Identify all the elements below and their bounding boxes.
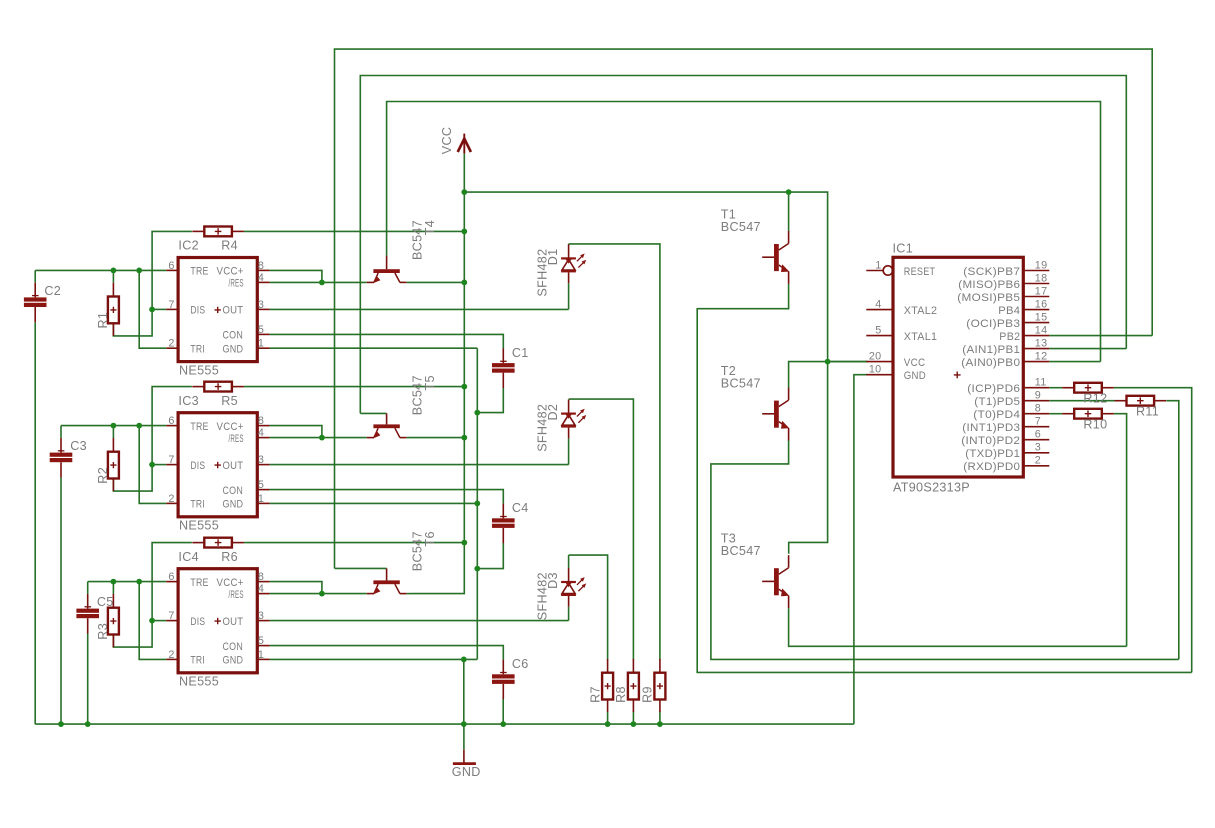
svg-text:7: 7 xyxy=(168,454,174,466)
svg-text:12: 12 xyxy=(1035,350,1048,362)
wire IC3 CON to capacitor xyxy=(270,490,504,504)
svg-text:13: 13 xyxy=(1035,337,1048,349)
junction at (827.6,361.6) xyxy=(825,359,831,365)
svg-text:XTAL1: XTAL1 xyxy=(904,331,938,343)
svg-text:(T0)PD4: (T0)PD4 xyxy=(973,409,1020,421)
svg-text:(MISO)PB6: (MISO)PB6 xyxy=(958,279,1020,291)
junction at (152.1,620.6) xyxy=(149,618,155,624)
transistor T1 BC547 xyxy=(762,231,789,284)
svg-text:R9: R9 xyxy=(641,686,655,703)
svg-text:7: 7 xyxy=(1035,416,1041,428)
svg-text:5: 5 xyxy=(258,635,264,647)
junction at (463.8,724.1) xyxy=(461,721,467,727)
wire R9 to ground bus xyxy=(659,711,661,724)
svg-text:(MOSI)PB5: (MOSI)PB5 xyxy=(957,292,1020,304)
wire D2 cathode to IC3 OUT xyxy=(568,438,570,464)
svg-text:3: 3 xyxy=(258,454,264,466)
svg-text:2: 2 xyxy=(1035,455,1041,467)
svg-text:TRI: TRI xyxy=(190,499,205,511)
junction at (321.9,437.6) xyxy=(319,435,325,441)
junction at (61,724.1) xyxy=(58,721,64,727)
svg-text:C1: C1 xyxy=(512,346,529,360)
wire IC3 OUT to LED cathode column xyxy=(270,464,569,466)
svg-text:3: 3 xyxy=(258,299,264,311)
op-amp IC4 NE555 timer xyxy=(166,550,269,689)
svg-text:(ICP)PD6: (ICP)PD6 xyxy=(967,383,1020,395)
op-amp IC3 NE555 timer xyxy=(166,394,269,533)
wire C4 bottom jog to ground vertical xyxy=(477,543,503,569)
microcontroller IC1 AT90S2313P xyxy=(866,241,1049,494)
wire R3 top branch xyxy=(112,582,114,594)
svg-text:VCC+: VCC+ xyxy=(217,421,244,433)
svg-text:IC1: IC1 xyxy=(893,241,914,255)
wire IC2 pin8 branch xyxy=(270,270,322,282)
wire C6 bottom to ground bus xyxy=(502,698,504,724)
wire IC3 pin8 branch xyxy=(270,426,322,438)
svg-text:(TXD)PD1: (TXD)PD1 xyxy=(965,448,1020,460)
resistor R4 xyxy=(192,227,244,237)
power symbol VCC xyxy=(440,127,471,155)
IC2 pin names xyxy=(190,266,243,356)
IC4 pin numbers xyxy=(168,571,264,661)
svg-text:8: 8 xyxy=(258,260,264,272)
wire DIS stub IC4 xyxy=(152,620,166,622)
svg-text:NE555: NE555 xyxy=(179,519,219,533)
wire C3 top lead xyxy=(60,426,62,438)
svg-text:T5: T5 xyxy=(423,375,437,390)
IC2 pin stubs xyxy=(166,270,269,348)
svg-text:17: 17 xyxy=(1035,285,1048,297)
svg-text:(AIN1)PB1: (AIN1)PB1 xyxy=(962,344,1020,356)
svg-text:4: 4 xyxy=(258,583,264,595)
IC1 origin cross xyxy=(954,372,961,379)
D3 labels xyxy=(536,572,561,620)
resistor R12 xyxy=(1062,383,1114,393)
junction at (113.4,425.6) xyxy=(111,423,117,429)
svg-text:T6: T6 xyxy=(423,531,437,546)
wire IC1 pin9 PD5 to R11 xyxy=(1049,400,1114,402)
svg-text:R3: R3 xyxy=(96,623,110,640)
svg-text:R5: R5 xyxy=(221,394,238,408)
T5 labels xyxy=(410,375,437,415)
svg-text:D1: D1 xyxy=(546,249,560,266)
svg-text:R10: R10 xyxy=(1083,418,1107,432)
svg-text:TRI: TRI xyxy=(190,655,205,667)
wire R7 to ground bus xyxy=(607,711,609,724)
resistor R1 xyxy=(108,283,119,336)
wire T4 collector to VCC trunk xyxy=(407,281,465,283)
junction at (659.9,724.1) xyxy=(657,721,663,727)
wire IC4 TRI branch xyxy=(139,582,166,660)
svg-text:NE555: NE555 xyxy=(179,675,219,689)
wire IC1 GND pin10 to ground bus xyxy=(854,375,868,724)
wire IC3 GND pin1 xyxy=(270,502,478,504)
svg-text:DIS: DIS xyxy=(190,616,205,628)
svg-text:GND: GND xyxy=(452,765,481,779)
D1 labels xyxy=(536,249,561,297)
wire C3 bottom to ground bus xyxy=(60,477,62,724)
svg-text:TRE: TRE xyxy=(190,266,208,278)
svg-text:BC547: BC547 xyxy=(410,375,424,415)
svg-text:(SCK)PB7: (SCK)PB7 xyxy=(963,266,1020,278)
wire IC1 pin11 PD6 to R12 xyxy=(1049,387,1062,389)
svg-text:R11: R11 xyxy=(1136,404,1159,418)
junction at (139.2,581.6) xyxy=(136,579,142,585)
svg-text:5: 5 xyxy=(875,325,881,337)
wire T1 collector stub xyxy=(788,192,790,231)
wire C5 top lead xyxy=(87,582,89,594)
IC3 origin cross xyxy=(215,462,221,468)
svg-text:2: 2 xyxy=(168,338,174,350)
svg-text:11: 11 xyxy=(1035,377,1047,389)
svg-text:BC547: BC547 xyxy=(721,377,761,391)
T1 labels xyxy=(721,208,761,234)
wire R1 top branch xyxy=(112,270,114,282)
svg-text:8: 8 xyxy=(258,415,264,427)
wire T3 collector branch xyxy=(789,362,828,554)
junction at (321.9,282.4) xyxy=(319,280,325,286)
resistor R5 xyxy=(192,382,244,392)
wire T5 collector to VCC trunk xyxy=(407,437,465,439)
resistor R10 xyxy=(1062,409,1114,419)
svg-text:VCC+: VCC+ xyxy=(217,266,244,278)
svg-text:C5: C5 xyxy=(97,595,114,609)
svg-text:2: 2 xyxy=(168,649,174,661)
wire ground bus xyxy=(35,723,854,725)
svg-text:10: 10 xyxy=(869,364,882,376)
svg-text:TRI: TRI xyxy=(190,344,205,356)
svg-text:OUT: OUT xyxy=(223,460,244,472)
IC1 left pin numbers xyxy=(869,260,882,376)
svg-text:R1: R1 xyxy=(96,312,110,329)
wire R10 to T3 emitter net xyxy=(1114,414,1127,647)
svg-text:4: 4 xyxy=(875,299,881,311)
resistor R2 xyxy=(108,438,119,491)
wire T2 emitter to R11 row xyxy=(711,441,1179,660)
svg-text:RESET: RESET xyxy=(904,266,936,278)
wire D3 anode to R7 xyxy=(569,555,608,660)
transistor T6 BC547 xyxy=(367,568,407,594)
IC4 origin cross xyxy=(215,618,221,624)
svg-text:8: 8 xyxy=(258,571,264,583)
wire T3 emitter to R10 row xyxy=(789,608,1127,646)
wire net PB1 top rail to T5 base xyxy=(360,76,1126,414)
IC4 pin names xyxy=(190,577,243,667)
svg-text:VCC+: VCC+ xyxy=(217,577,244,589)
wire R4 left to DIS junction xyxy=(152,231,192,309)
svg-text:R7: R7 xyxy=(588,686,602,703)
svg-text:T4: T4 xyxy=(423,220,437,235)
resistor R3 xyxy=(108,594,119,647)
junction at (152.1,309.4) xyxy=(149,307,155,313)
svg-text:6: 6 xyxy=(168,571,174,583)
wire IC2 GND pin1 xyxy=(270,347,478,349)
IC4 pin stubs xyxy=(166,582,269,660)
junction at (113.4,270.4) xyxy=(111,268,117,274)
wire IC2 pin4 to transistor emitter xyxy=(270,281,367,283)
svg-text:PB2: PB2 xyxy=(999,331,1020,343)
svg-text:GND: GND xyxy=(223,655,244,667)
svg-text:GND: GND xyxy=(223,499,244,511)
junction at (477.3,568.6) xyxy=(474,566,480,572)
junction at (788.6,192.1) xyxy=(786,189,792,195)
wire IC3 pin4 to transistor emitter xyxy=(270,437,367,439)
svg-text:R6: R6 xyxy=(221,550,238,564)
svg-text:AT90S2313P: AT90S2313P xyxy=(893,480,970,494)
transistor T3 BC547 xyxy=(762,555,789,608)
svg-text:BC547: BC547 xyxy=(721,220,761,234)
wire R3 bottom to DIS xyxy=(113,621,152,648)
infrared LED D3 SFH482 xyxy=(561,568,586,607)
wire D1 anode to R9 xyxy=(569,244,660,660)
resistor R11 xyxy=(1115,396,1167,406)
wire IC4 threshold net (TRE) from C5 xyxy=(88,581,167,583)
wire R8 to ground bus xyxy=(632,711,634,724)
svg-text:(T1)PD5: (T1)PD5 xyxy=(974,396,1020,408)
wire R4 right to VCC trunk xyxy=(244,230,464,232)
svg-text:5: 5 xyxy=(258,324,264,336)
svg-text:2: 2 xyxy=(168,493,174,505)
junction at (503.2,724.1) xyxy=(500,721,506,727)
svg-text:/RES: /RES xyxy=(229,278,244,290)
svg-text:20: 20 xyxy=(869,351,882,363)
junction at (464.3,386.6) xyxy=(461,384,467,390)
wire IC1 VCC pin20 stub xyxy=(828,361,868,363)
svg-text:18: 18 xyxy=(1035,272,1048,284)
wire T1 emitter to R12 row xyxy=(697,284,1191,673)
wire IC4 pin4 to transistor emitter xyxy=(270,593,367,595)
svg-text:15: 15 xyxy=(1035,311,1048,323)
junction at (321.9,593.6) xyxy=(319,591,325,597)
svg-text:(OCI)PB3: (OCI)PB3 xyxy=(966,318,1020,330)
svg-text:9: 9 xyxy=(1035,390,1041,402)
svg-text:5: 5 xyxy=(258,479,264,491)
wire T5 base jog xyxy=(360,412,386,414)
svg-text:VCC: VCC xyxy=(904,357,926,369)
svg-text:(RXD)PD0: (RXD)PD0 xyxy=(963,461,1020,473)
IC3 pin stubs xyxy=(166,426,269,504)
svg-text:C6: C6 xyxy=(512,657,529,671)
T3 labels xyxy=(721,532,761,558)
IC2 pin numbers xyxy=(168,260,264,350)
svg-text:/RES: /RES xyxy=(229,433,244,445)
svg-text:IC4: IC4 xyxy=(178,550,199,564)
wire IC3 TRI branch xyxy=(139,426,166,504)
wire T6 base jog xyxy=(335,567,387,569)
svg-text:4: 4 xyxy=(258,272,264,284)
T6 labels xyxy=(410,531,437,571)
wire IC4 GND pin1 xyxy=(270,658,478,660)
resistor R8 xyxy=(628,659,639,712)
wire net PB0 top rail to T4 base xyxy=(387,102,1101,362)
svg-text:PB4: PB4 xyxy=(998,305,1020,317)
svg-text:BC547: BC547 xyxy=(410,531,424,571)
svg-text:7: 7 xyxy=(168,610,174,622)
wire IC4 OUT to LED cathode column xyxy=(270,620,569,622)
IC1 right pin stubs xyxy=(1023,271,1049,466)
wire IC2 OUT to LED cathode column xyxy=(270,308,569,310)
svg-text:(INT1)PD3: (INT1)PD3 xyxy=(962,422,1020,434)
svg-text:C4: C4 xyxy=(512,501,529,515)
svg-text:BC547: BC547 xyxy=(410,220,424,260)
svg-text:3: 3 xyxy=(1035,442,1041,454)
junction at (464.3,282.4) xyxy=(461,280,467,286)
IC1 left pin stubs xyxy=(866,266,893,375)
wire VCC to T1/T2 collectors and IC1 VCC pin 20 xyxy=(464,192,867,362)
IC3 pin numbers xyxy=(168,415,264,505)
svg-text:6: 6 xyxy=(168,260,174,272)
junction at (477.3,412.6) xyxy=(474,410,480,416)
resistor R7 xyxy=(602,659,613,712)
svg-text:1: 1 xyxy=(258,649,264,661)
capacitor C3 xyxy=(50,438,87,478)
IC2 origin cross xyxy=(215,307,221,313)
T2 labels xyxy=(721,364,761,390)
wire DIS stub IC2 xyxy=(152,308,166,310)
svg-text:3: 3 xyxy=(258,610,264,622)
wire D3 cathode to IC4 OUT xyxy=(568,607,570,621)
wire IC2 TRI branch xyxy=(139,270,166,348)
svg-text:19: 19 xyxy=(1035,259,1048,271)
svg-text:R4: R4 xyxy=(221,239,238,253)
op-amp IC2 NE555 timer xyxy=(166,239,269,378)
wire D1 cathode to IC2 OUT xyxy=(568,243,570,246)
transistor T4 BC547 xyxy=(367,256,407,284)
svg-text:(INT0)PD2: (INT0)PD2 xyxy=(961,435,1020,447)
svg-text:D2: D2 xyxy=(546,404,560,421)
svg-text:VCC: VCC xyxy=(440,127,454,155)
transistor T2 BC547 xyxy=(762,388,789,441)
svg-text:GND: GND xyxy=(904,370,926,382)
svg-text:1: 1 xyxy=(875,260,881,272)
junction at (139.2,425.6) xyxy=(136,423,142,429)
D2 labels xyxy=(536,404,561,452)
wire R11 to T2 emitter net xyxy=(1166,401,1179,660)
wire IC2 CON to capacitor xyxy=(270,334,504,348)
svg-text:CON: CON xyxy=(223,330,244,342)
power symbol GND xyxy=(452,724,481,779)
wire T2 collector branch xyxy=(789,362,828,388)
wire net VCC vertical trunk xyxy=(413,154,465,594)
IC1 right pin numbers xyxy=(1035,259,1048,466)
wire IC1 pin13 PB1 xyxy=(1049,348,1126,350)
junction at (139.2,270.4) xyxy=(136,268,142,274)
junction at (87.7,724.1) xyxy=(85,721,91,727)
svg-text:D3: D3 xyxy=(546,572,560,589)
transistor T5 BC547 xyxy=(367,413,407,438)
wire IC4 ground drop to bus xyxy=(463,659,465,724)
svg-text:R8: R8 xyxy=(614,686,628,703)
junction at (463.8,659.4) xyxy=(461,657,467,663)
IC1 right pin names xyxy=(957,266,1020,473)
capacitor C4 xyxy=(492,501,529,543)
svg-text:7: 7 xyxy=(168,299,174,311)
wire R12 to T1 emitter net xyxy=(1114,388,1192,673)
wire R2 top branch xyxy=(112,426,114,438)
resistor R9 xyxy=(654,659,665,712)
capacitor C1 xyxy=(492,346,529,388)
wire R6 left to DIS junction xyxy=(152,543,192,621)
wire R1 bottom to DIS xyxy=(113,309,152,336)
wire T6 collector from VCC trunk xyxy=(407,593,413,595)
wire IC4 pin8 branch xyxy=(270,582,322,594)
svg-text:OUT: OUT xyxy=(223,305,244,317)
svg-text:XTAL2: XTAL2 xyxy=(904,305,938,317)
svg-text:14: 14 xyxy=(1035,324,1048,336)
junction at (477.3,503.4) xyxy=(474,501,480,507)
svg-text:CON: CON xyxy=(223,485,244,497)
svg-text:/RES: /RES xyxy=(229,589,244,601)
IC1 left pin names xyxy=(904,266,938,382)
wire IC2 threshold net (TRE) from C2 xyxy=(35,269,166,271)
svg-text:R12: R12 xyxy=(1083,391,1107,405)
wire IC1 pin8 PD4 to R10 xyxy=(1049,413,1062,415)
wire ground vertical joining NE555 grounds xyxy=(476,348,478,659)
capacitor C2 xyxy=(24,283,61,323)
svg-text:DIS: DIS xyxy=(190,305,205,317)
svg-text:TRE: TRE xyxy=(190,577,208,589)
svg-text:R2: R2 xyxy=(96,467,110,484)
svg-text:6: 6 xyxy=(1035,429,1041,441)
junction at (152.1,464.6) xyxy=(149,462,155,468)
junction at (464.3,192.1) xyxy=(461,189,467,195)
svg-text:8: 8 xyxy=(1035,403,1041,415)
wire R6 right to VCC trunk xyxy=(244,542,464,544)
infrared LED D1 SFH482 xyxy=(561,244,586,283)
svg-text:IC2: IC2 xyxy=(178,239,199,253)
capacitor C5 xyxy=(76,594,113,634)
wire C5 bottom to ground bus xyxy=(87,633,89,724)
capacitor C6 xyxy=(492,657,529,699)
wire IC4 CON to capacitor xyxy=(270,646,504,660)
svg-text:BC547: BC547 xyxy=(721,544,761,558)
svg-text:C3: C3 xyxy=(70,439,87,453)
svg-text:IC3: IC3 xyxy=(178,394,199,408)
svg-text:1: 1 xyxy=(258,338,264,350)
wire net PB2 top rail to T6 base xyxy=(335,49,1153,568)
svg-text:CON: CON xyxy=(223,641,244,653)
junction at (113.4,581.6) xyxy=(111,579,117,585)
wire R5 left to DIS junction xyxy=(152,387,192,465)
wire C1 bottom jog to ground vertical xyxy=(477,388,503,413)
wire IC1 pin12 PB0 xyxy=(1049,361,1100,363)
wire R5 right to VCC trunk xyxy=(244,386,464,388)
wire C2 branch to ground bus xyxy=(34,270,36,282)
svg-text:4: 4 xyxy=(258,427,264,439)
wire R2 bottom to DIS xyxy=(113,465,152,492)
junction at (464.3,231.4) xyxy=(461,229,467,235)
wire D2 anode to R8 xyxy=(569,399,634,659)
junction at (464.3,542.6) xyxy=(461,540,467,546)
infrared LED D2 SFH482 xyxy=(561,400,586,439)
svg-text:GND: GND xyxy=(223,344,244,356)
svg-text:C2: C2 xyxy=(44,284,61,298)
wire DIS stub IC3 xyxy=(152,464,166,466)
junction at (633.4,724.1) xyxy=(631,721,637,727)
svg-text:OUT: OUT xyxy=(223,616,244,628)
junction at (607.6,724.1) xyxy=(605,721,611,727)
svg-text:1: 1 xyxy=(258,493,264,505)
wire IC1 pin14 PB2 xyxy=(1049,335,1152,337)
wire IC3 threshold net (TRE) from C3 xyxy=(61,425,166,427)
svg-text:16: 16 xyxy=(1035,298,1048,310)
svg-text:TRE: TRE xyxy=(190,421,208,433)
svg-text:DIS: DIS xyxy=(190,460,205,472)
IC3 pin names xyxy=(190,421,243,511)
resistor R6 xyxy=(192,538,244,548)
svg-text:(AIN0)PB0: (AIN0)PB0 xyxy=(961,357,1020,369)
svg-text:6: 6 xyxy=(168,415,174,427)
